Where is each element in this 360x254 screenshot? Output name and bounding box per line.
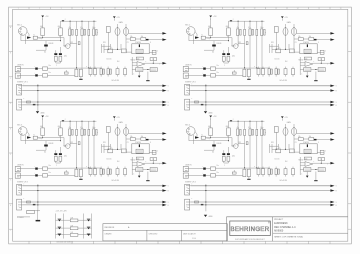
ch3 VCA block U3a bbox=[132, 144, 149, 154]
ch1 wire line1 a bbox=[21, 68, 36, 70]
ch4 transistor Q4 bbox=[234, 144, 239, 149]
ch1 arrow insert1 send bbox=[162, 85, 166, 88]
ch4 resistor R eq row 2 bbox=[262, 169, 265, 175]
svg-text:+15V: +15V bbox=[284, 117, 287, 119]
ch4 wire row bottoms 4 bbox=[256, 136, 258, 168]
svg-text:220u: 220u bbox=[64, 56, 67, 58]
ch3 wire pot top 2 bbox=[125, 124, 127, 128]
ch4 wire eq gnd bbox=[248, 177, 250, 179]
svg-text:C9: C9 bbox=[127, 142, 129, 144]
ch1 resistor R eq a bbox=[75, 69, 78, 77]
svg-text:8k2 n33 2k2: 8k2 n33 2k2 bbox=[280, 180, 288, 182]
ch1 junction input node bbox=[42, 37, 43, 38]
ch2 wire line2 a bbox=[189, 74, 204, 76]
ch3 VCA inner text block bbox=[136, 149, 143, 153]
ch2 resistor R input bias B bbox=[227, 28, 231, 36]
ch3 wire pot top 1 bbox=[117, 124, 119, 128]
ch2 wire vca in bbox=[294, 51, 300, 53]
ch2 power flag +15V rail 2 bbox=[230, 20, 233, 22]
ch1 op-amp U1b bbox=[137, 62, 145, 67]
ch3 resistor R fb2 bbox=[150, 168, 157, 172]
ch3 resistor R vca out bbox=[152, 150, 156, 154]
svg-text:6k8: 6k8 bbox=[226, 26, 229, 28]
ch3 wire R to input node bbox=[42, 136, 44, 138]
ch4 wire line1 b bbox=[206, 168, 211, 170]
wire power entry top bbox=[27, 209, 40, 211]
ch2 wire row bottoms 1 bbox=[237, 36, 239, 47]
ch2 junction rail drops bbox=[238, 21, 239, 22]
ch3 wire diff top bbox=[43, 137, 64, 139]
ch1 wire diff top bbox=[43, 37, 64, 39]
svg-text:6k8: 6k8 bbox=[40, 126, 43, 128]
ch2 wire rail drop 1 bbox=[237, 21, 239, 29]
wire supply bus left bbox=[55, 214, 57, 239]
ch2 resistor R s1 bbox=[298, 38, 303, 41]
ch3 wire rail drop 1 bbox=[69, 121, 71, 129]
ch2 resistor R eq row 4 bbox=[292, 69, 295, 75]
ch1 wire rail drop 5 bbox=[93, 21, 95, 29]
ch2 VCA inner text block bbox=[304, 49, 311, 53]
ch2 wire row bottoms 2 bbox=[244, 36, 246, 68]
svg-text:100n: 100n bbox=[92, 127, 95, 129]
ch3 capacitor C row pair 1 bbox=[69, 129, 71, 136]
svg-text:47u: 47u bbox=[248, 27, 251, 29]
svg-text:10R: 10R bbox=[71, 225, 73, 227]
svg-text:S: S bbox=[336, 102, 337, 104]
ch2 wire XLR shield down bbox=[193, 35, 195, 44]
svg-text:220u: 220u bbox=[64, 156, 67, 158]
ch2 resistor R vca out bbox=[320, 50, 324, 54]
ch3 wire e1 top bbox=[55, 150, 57, 153]
ch4 wire vca mesh v3 bbox=[278, 144, 280, 149]
ch4 power flag channel ground bbox=[204, 215, 207, 217]
ch4 resistor R s2 bbox=[309, 138, 314, 141]
ch3 power flag +15V rail 2 bbox=[62, 120, 65, 122]
svg-text:INSERT CH 1: INSERT CH 1 bbox=[17, 82, 28, 84]
ch3 wire fb up bbox=[152, 159, 154, 163]
ch4 wire op-amp left rail bbox=[299, 157, 301, 175]
svg-text:MIC 4: MIC 4 bbox=[185, 125, 190, 127]
ch1 capacitor C row pair 3 bbox=[93, 29, 95, 36]
ch1 wire vca mesh v3 bbox=[110, 44, 112, 49]
svg-text:+15V -15V +48V: +15V -15V +48V bbox=[56, 211, 67, 213]
svg-text:R33: R33 bbox=[103, 142, 106, 144]
ch3 diode D insert2 bbox=[33, 204, 36, 205]
ch4 resistor R fb2 bbox=[318, 168, 325, 172]
ch2 wire mix stub bbox=[233, 70, 235, 72]
ch1 junction line1 bbox=[76, 67, 77, 68]
ch1 wire pot top 1 bbox=[117, 24, 119, 28]
ch2 jack insert 1 (TRS) bbox=[185, 84, 190, 95]
diode D right 1 bbox=[87, 218, 91, 220]
ch3 wire vca mesh v3 bbox=[110, 144, 112, 149]
svg-text:10u: 10u bbox=[217, 72, 219, 74]
ch4 junction rail drops bbox=[238, 121, 239, 122]
svg-text:10u: 10u bbox=[49, 72, 51, 74]
ch2 wire emitter join bbox=[223, 61, 225, 63]
svg-text:3k3: 3k3 bbox=[117, 161, 119, 163]
ch3 resistor row single 1 bbox=[76, 129, 78, 135]
ch1 wire eq gnd bbox=[80, 77, 82, 79]
ch2 wire line1 c bbox=[216, 67, 270, 69]
ch4 wire +15V rail down bbox=[210, 117, 212, 128]
svg-text:T1: T1 bbox=[201, 35, 203, 37]
ch4 junction insert common bbox=[205, 185, 206, 186]
svg-text:4: 4 bbox=[82, 8, 83, 10]
ch4 resistor R s1 bbox=[298, 138, 303, 141]
svg-text:100n: 100n bbox=[92, 27, 95, 29]
svg-text:47u: 47u bbox=[237, 127, 240, 129]
ch1 wire clamp bbox=[45, 41, 47, 45]
ch4 wire e2 top bbox=[227, 147, 229, 153]
svg-text:REC CHANNEL 1-4: REC CHANNEL 1-4 bbox=[274, 226, 296, 229]
ch4 capacitor C eq pair 1 bbox=[268, 169, 270, 175]
ch2 resistor R line1 bbox=[211, 67, 216, 70]
ch4 wire diff top bbox=[211, 137, 232, 139]
svg-text:10u: 10u bbox=[217, 172, 219, 174]
ch4 wire eq row bottoms bbox=[258, 175, 260, 177]
svg-text:T1: T1 bbox=[201, 135, 203, 137]
ch1 capacitor C line1 (polar) bbox=[35, 68, 38, 70]
diode D left 2 bbox=[58, 226, 62, 228]
ch2 arrow aux out bbox=[330, 38, 334, 41]
ch2 wire op-amp in- bbox=[300, 64, 305, 66]
ch4 wire vca mesh v2 bbox=[271, 144, 273, 153]
resistor R supply 2 bbox=[70, 227, 78, 230]
svg-text:2k2: 2k2 bbox=[44, 52, 46, 54]
svg-text:S: S bbox=[336, 186, 337, 188]
ch3 capacitor C fb bbox=[150, 158, 157, 161]
ch3 resistor R gain set bbox=[106, 127, 110, 133]
ch4 wire vca in bbox=[294, 151, 300, 153]
ch1 wire insert1 return bbox=[23, 90, 163, 92]
ch1 VCA inner text block bbox=[136, 49, 143, 53]
ch4 ground op-amp bbox=[314, 180, 317, 181]
border row ticks left bbox=[9, 25, 13, 27]
ch3 wire clamp bbox=[45, 141, 47, 145]
ch3 wire op-amp out bbox=[145, 162, 163, 164]
ch1 capacitor C line2 (polar) bbox=[35, 74, 38, 76]
svg-text:R21: R21 bbox=[239, 142, 242, 144]
svg-text:12: 12 bbox=[254, 8, 256, 10]
ch1 VCA pin 1 bar bbox=[139, 44, 140, 47]
ch2 wire insert common bbox=[205, 84, 207, 111]
ch4 resistor small R e bbox=[246, 142, 248, 145]
ch2 wire eq gnd bbox=[248, 77, 250, 79]
ch4 power flag op-amp -15V bbox=[306, 172, 308, 176]
ch2 power flag channel ground bbox=[204, 111, 207, 113]
ch3 junction fb bbox=[153, 159, 154, 160]
ch4 wire line2 a bbox=[189, 174, 204, 176]
ch4 resistor R m1 bbox=[276, 149, 281, 153]
svg-text:B: B bbox=[10, 52, 11, 54]
ch1 ferrite bead L1 bbox=[33, 36, 37, 39]
svg-text:22p: 22p bbox=[137, 158, 140, 160]
ch3 wire emitter join bbox=[55, 161, 57, 163]
ch3 signal arrow into preamp bbox=[27, 136, 31, 139]
wire supply bus 2 bbox=[63, 214, 65, 239]
ch2 wire line2 c bbox=[216, 74, 243, 76]
ch3 arrow channel out bbox=[162, 162, 166, 165]
ch4 arrow aux out bbox=[330, 138, 334, 141]
svg-text:8k2 n33 2k2: 8k2 n33 2k2 bbox=[112, 180, 120, 182]
ch2 resistor R s2 bbox=[309, 38, 314, 41]
svg-text:R21: R21 bbox=[71, 142, 74, 144]
ch2 wire row bottoms 3 bbox=[249, 36, 251, 70]
resistor R supply 3 bbox=[70, 234, 78, 237]
ch4 wire rail drop 4 bbox=[256, 121, 258, 129]
ch1 wire mix stub bbox=[65, 70, 67, 72]
ch2 arrow channel out bbox=[330, 62, 334, 65]
svg-text:6k8: 6k8 bbox=[226, 126, 229, 128]
ch2 arrow insert1 send bbox=[330, 85, 334, 88]
ch1 wire rail drop 4 bbox=[88, 21, 90, 29]
ch3 ground op-amp bbox=[146, 180, 149, 181]
ch1 ground eq bbox=[79, 79, 82, 80]
ch3 junction op-amp out bbox=[153, 163, 154, 164]
ch1 wire line1 b bbox=[38, 68, 43, 70]
ch4 arrow insert1 send bbox=[330, 185, 334, 188]
ch4 junction op-amp out bbox=[321, 163, 322, 164]
ch4 VCA pin 1 bar bbox=[307, 144, 308, 147]
svg-text:INSERT CH 2: INSERT CH 2 bbox=[185, 82, 196, 84]
ch3 wire op-amp in- bbox=[132, 164, 137, 166]
ch3 capacitor C row pair 3 bbox=[93, 129, 95, 136]
title block left edge bbox=[226, 217, 228, 241]
svg-text:15k 1n5: 15k 1n5 bbox=[275, 59, 280, 61]
ch4 wire clamp bbox=[213, 141, 215, 145]
ch4 resistor R e2 bbox=[227, 156, 230, 161]
ch3 arrow insert1 send bbox=[162, 185, 166, 188]
ch4 capacitor C line1 (polar) bbox=[203, 168, 206, 170]
ch1 wire op-amp left rail bbox=[131, 57, 133, 75]
ch4 wire XLR pin2 to pad bbox=[195, 132, 197, 134]
ch1 junction op-amp out bbox=[153, 63, 154, 64]
svg-text:15: 15 bbox=[318, 8, 320, 10]
svg-text:3k3: 3k3 bbox=[285, 61, 287, 63]
ch2 wire line2 b bbox=[206, 74, 211, 76]
ch3 resistor small R e bbox=[78, 142, 80, 145]
ch2 wire vca mesh v1 bbox=[269, 44, 271, 53]
ch3 power flag op-amp -15V bbox=[138, 172, 140, 176]
ch4 wire insert2 return bbox=[191, 204, 331, 206]
ch2 jack line L bbox=[183, 67, 188, 72]
ch2 power flag +15V bbox=[209, 16, 212, 18]
ch4 wire rail drop 2 bbox=[244, 121, 246, 129]
ch4 resistor R mix bbox=[232, 172, 236, 174]
ch3 transistor Q3 bbox=[66, 144, 71, 149]
ch1 junction insert common bbox=[37, 85, 38, 86]
svg-text:REVISION: REVISION bbox=[105, 227, 115, 229]
svg-text:1N4148: 1N4148 bbox=[217, 143, 222, 145]
ch3 diode D input clamp bbox=[44, 145, 48, 147]
ch4 label op-amp stage bbox=[304, 157, 311, 160]
ch3 resistor R fb1 bbox=[136, 168, 143, 172]
ch1 wire e2 top bbox=[59, 47, 61, 53]
ch2 capacitor C row pair 2 bbox=[249, 29, 251, 36]
ch3 potentiometer VR gain A bbox=[115, 128, 120, 136]
svg-text:S: S bbox=[168, 102, 169, 104]
ch1 wire mid supply bbox=[113, 18, 115, 20]
ch2 signal arrow into preamp bbox=[195, 36, 199, 39]
ch2 resistor R e2 bbox=[227, 56, 230, 61]
ch1 wire R gain set down bbox=[107, 32, 109, 49]
ch3 ferrite bead L3 bbox=[33, 136, 37, 139]
ch2 wire +15V rail down bbox=[210, 17, 212, 28]
border row ticks right bbox=[348, 25, 352, 27]
ch2 resistor R gain set bbox=[274, 27, 278, 33]
ch4 capacitor C eq pair 2 bbox=[275, 169, 277, 175]
ch4 wire op-amp in- bbox=[300, 164, 305, 166]
ch1 junction fb bbox=[153, 59, 154, 60]
svg-text:R: R bbox=[336, 191, 337, 193]
svg-text:SHEET 1 OF 3 SHEETS TOTAL: SHEET 1 OF 3 SHEETS TOTAL bbox=[274, 236, 304, 239]
ch1 potentiometer VR gain B bbox=[124, 28, 129, 36]
svg-text:POWER: POWER bbox=[17, 217, 24, 219]
ch4 wire line1 c bbox=[216, 167, 270, 169]
ch3 resistor R eq row 1 bbox=[89, 169, 92, 175]
svg-text:CHECKED: CHECKED bbox=[149, 234, 158, 236]
ch2 wire eq row bottoms bbox=[258, 75, 260, 77]
ch2 arrow insert2 send bbox=[330, 101, 334, 103]
svg-text:10: 10 bbox=[211, 8, 213, 10]
ch3 jack insert 2 (TRS) bbox=[17, 199, 22, 210]
ch2 wire supply rail bbox=[229, 20, 265, 22]
ch3 jack line L bbox=[15, 167, 20, 172]
ch1 wire rail drop 1 bbox=[69, 21, 71, 29]
ch2 resistor R eq row 1 bbox=[257, 69, 260, 75]
ch4 resistor R eq a bbox=[243, 169, 246, 177]
ch2 wire vca mesh v3 bbox=[278, 44, 280, 49]
ch2 junction fb bbox=[321, 59, 322, 60]
ch3 wire op-amp in+ bbox=[132, 162, 137, 164]
ch1 resistor R input bias A bbox=[41, 28, 45, 36]
svg-text:15k 1n5: 15k 1n5 bbox=[107, 59, 112, 61]
ch2 label op-amp stage bbox=[304, 57, 311, 60]
ch3 wire line1 c bbox=[48, 167, 102, 169]
ch4 resistor row single 2 bbox=[256, 129, 258, 135]
ch3 wire line1 a bbox=[21, 168, 36, 170]
ch1 resistor R s2 bbox=[141, 38, 146, 41]
svg-text:10k: 10k bbox=[130, 36, 133, 38]
ch3 diode D s bbox=[146, 139, 149, 141]
ch1 power flag channel ground bbox=[36, 111, 39, 113]
svg-text:100p: 100p bbox=[38, 38, 42, 40]
ch3 wire rail drop 4 bbox=[88, 121, 90, 129]
ch2 wire fb row bbox=[300, 69, 304, 71]
ch3 wire pot B down bbox=[125, 136, 127, 153]
svg-text:2: 2 bbox=[39, 8, 40, 10]
ch2 wire R bias B bottom bbox=[228, 36, 230, 41]
ch1 resistor R vca out bbox=[152, 50, 156, 54]
ch4 resistor R eq row 3 bbox=[284, 169, 287, 175]
ch3 resistor R e1 bbox=[54, 156, 57, 161]
ch3 resistor R mix bbox=[64, 172, 68, 174]
svg-text:10k: 10k bbox=[130, 136, 133, 138]
ch1 capacitor C e2 (polar) bbox=[59, 53, 62, 55]
ch1 resistor small R e bbox=[78, 42, 80, 45]
ch4 junction input node bbox=[210, 137, 211, 138]
svg-text:S: S bbox=[168, 186, 169, 188]
svg-text:F: F bbox=[10, 154, 11, 156]
ch4 wire pot B down bbox=[293, 136, 295, 153]
svg-text:1: 1 bbox=[18, 8, 19, 10]
ch2 arrow direct out bbox=[330, 32, 334, 35]
ch1 resistor R eq row 3 bbox=[116, 69, 119, 75]
ch4 capacitor C row pair 2 bbox=[249, 129, 251, 136]
svg-text:INSERT CH 3: INSERT CH 3 bbox=[17, 182, 28, 184]
ch2 arrow insert2 return bbox=[330, 104, 334, 107]
ch3 wire row bottoms 1 bbox=[69, 136, 71, 147]
ch1 resistor R input bias B bbox=[59, 28, 63, 36]
svg-text:10k: 10k bbox=[309, 36, 312, 38]
ch1 wire XLR pin3 down bbox=[20, 35, 22, 41]
ch1 diode D s bbox=[146, 39, 149, 41]
ch4 jack insert 1 (TRS) bbox=[185, 184, 190, 195]
ch1 wire vca mesh h1 bbox=[102, 45, 111, 47]
ch4 wire line2 c bbox=[216, 174, 243, 176]
ch1 wire bead to node bbox=[37, 37, 42, 39]
svg-text:8k2 n33 2k2: 8k2 n33 2k2 bbox=[280, 80, 288, 82]
ch4 wire Q base bbox=[231, 138, 233, 146]
ch4 wire vca mesh h2 bbox=[272, 148, 289, 150]
ch2 transistor Q2 bbox=[234, 44, 239, 49]
ch4 wire row bottoms 2 bbox=[244, 136, 246, 168]
ch4 wire fb up bbox=[320, 159, 322, 163]
ch1 wire row bottoms 1 bbox=[69, 36, 71, 47]
svg-text:100p: 100p bbox=[206, 138, 210, 140]
ch1 wire eq row tops bbox=[90, 67, 92, 69]
ch1 junction fb row bbox=[147, 69, 148, 70]
ch2 capacitor C line1 (polar) bbox=[203, 68, 206, 70]
svg-text:R: R bbox=[168, 205, 169, 207]
svg-text:R33: R33 bbox=[271, 142, 274, 144]
ch3 wire vca mesh v1 bbox=[101, 144, 103, 153]
svg-text:NE5532: NE5532 bbox=[299, 60, 304, 62]
ch1 resistor R fb1 bbox=[136, 68, 143, 72]
ch1 arrow direct out bbox=[162, 32, 166, 35]
svg-text:2k2: 2k2 bbox=[44, 152, 46, 154]
ch4 ground eq bbox=[247, 179, 250, 180]
svg-text:11: 11 bbox=[232, 8, 234, 10]
ch2 resistor row single 2 bbox=[256, 29, 258, 35]
svg-text:LINE IN: LINE IN bbox=[17, 164, 24, 166]
svg-text:PROJECT: PROJECT bbox=[274, 219, 284, 221]
svg-text:S: S bbox=[336, 202, 337, 204]
power entry box bbox=[27, 210, 35, 213]
ch2 junction insert common bbox=[205, 85, 206, 86]
ch1 arrow insert1 return bbox=[162, 89, 166, 92]
ch2 resistor R eq row 3 bbox=[284, 69, 287, 75]
svg-text:3k3: 3k3 bbox=[117, 61, 119, 63]
ch3 capacitor C e1 (polar) bbox=[54, 153, 57, 155]
ch1 resistor R eq row 1 bbox=[89, 69, 92, 75]
ch1 power flag +15V rail 2 bbox=[62, 20, 65, 22]
ch2 wire pot B down bbox=[293, 36, 295, 53]
ch4 jack line R bbox=[183, 173, 188, 178]
ch3 wire supply rail bbox=[61, 120, 97, 122]
ch2 wire insert1 send bbox=[191, 85, 331, 87]
ch3 wire mid supply bbox=[113, 118, 115, 120]
ch2 capacitor C row pair 1 bbox=[237, 29, 239, 36]
ch3 power flag +15V bbox=[41, 116, 44, 118]
svg-text:14: 14 bbox=[297, 8, 299, 10]
ch4 wire mix stub bbox=[233, 170, 235, 172]
ch1 VCA block U1a bbox=[132, 44, 149, 54]
ch1 wire rail drop 3 bbox=[81, 21, 83, 29]
resistor R supply 1 bbox=[70, 219, 78, 222]
ch1 arrow aux out bbox=[162, 38, 166, 41]
